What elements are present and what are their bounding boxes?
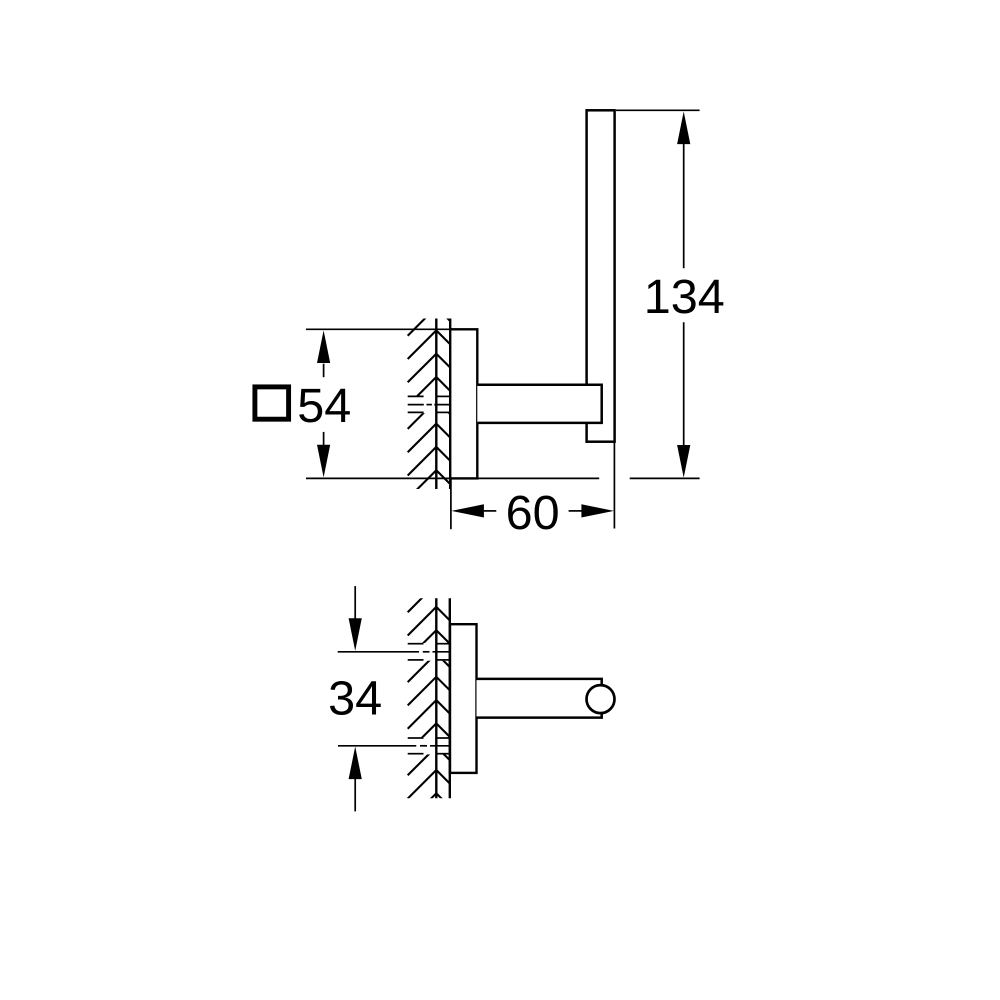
svg-text:34: 34 <box>328 672 382 726</box>
holder arm (front view) <box>477 385 601 423</box>
wall hatching (front view) <box>408 307 450 499</box>
dimension 60: right extension line <box>613 442 615 529</box>
dimension 54: lower arrow <box>317 445 330 478</box>
dimension 54: top extension line <box>306 328 450 330</box>
dimension 60: left extension line <box>450 478 452 529</box>
dimension 34: lower arrow <box>349 747 362 780</box>
dimension 60: dimension line <box>484 510 582 512</box>
dimension 34 top extension / upper hole centerline <box>338 651 450 653</box>
hole gap masks (top view) <box>405 643 449 661</box>
mounting hole hidden lines (front view) <box>408 396 450 412</box>
upper mounting hole hidden lines (top view) <box>408 644 450 660</box>
wall face line (front view) <box>449 319 451 490</box>
dimension 54: upper arrow <box>317 330 330 363</box>
vertical bar (front view) <box>587 110 615 441</box>
svg-text:54: 54 <box>297 379 351 433</box>
dimension 34 bottom extension / lower hole centerline <box>338 745 450 747</box>
dimension 34: upper arrow <box>349 618 362 651</box>
svg-text:60: 60 <box>506 486 560 540</box>
dimension 34: dimension line <box>354 586 356 811</box>
dimension 134: dimension line <box>683 144 685 446</box>
lower mounting hole hidden lines (top view) <box>408 738 450 754</box>
dimension 134: lower arrow <box>677 445 690 478</box>
wall plate (front view) <box>450 329 477 478</box>
dimension 60: right arrow <box>581 504 614 517</box>
wall hatching (top view) <box>408 584 450 822</box>
dimension 134: upper arrow <box>677 112 690 145</box>
hole gap mask (front view) <box>405 396 449 414</box>
dimension 54: dimension line <box>323 364 325 446</box>
dimension 54/134: bottom extension line <box>306 477 700 479</box>
bar cross-section circle (top view) <box>587 685 615 713</box>
wall inner line (front view) <box>435 319 437 490</box>
wall face line (top view) <box>449 598 451 798</box>
square profile symbol <box>255 387 289 419</box>
dimension 134: top extension line <box>616 109 700 111</box>
mounting hole centerline (front view) <box>408 404 450 406</box>
wall plate (top view) <box>450 624 477 773</box>
holder arm (top view) <box>477 679 602 718</box>
dimension 60: left arrow <box>451 504 484 517</box>
svg-text:134: 134 <box>644 270 725 324</box>
wall inner line (top view) <box>435 598 437 798</box>
